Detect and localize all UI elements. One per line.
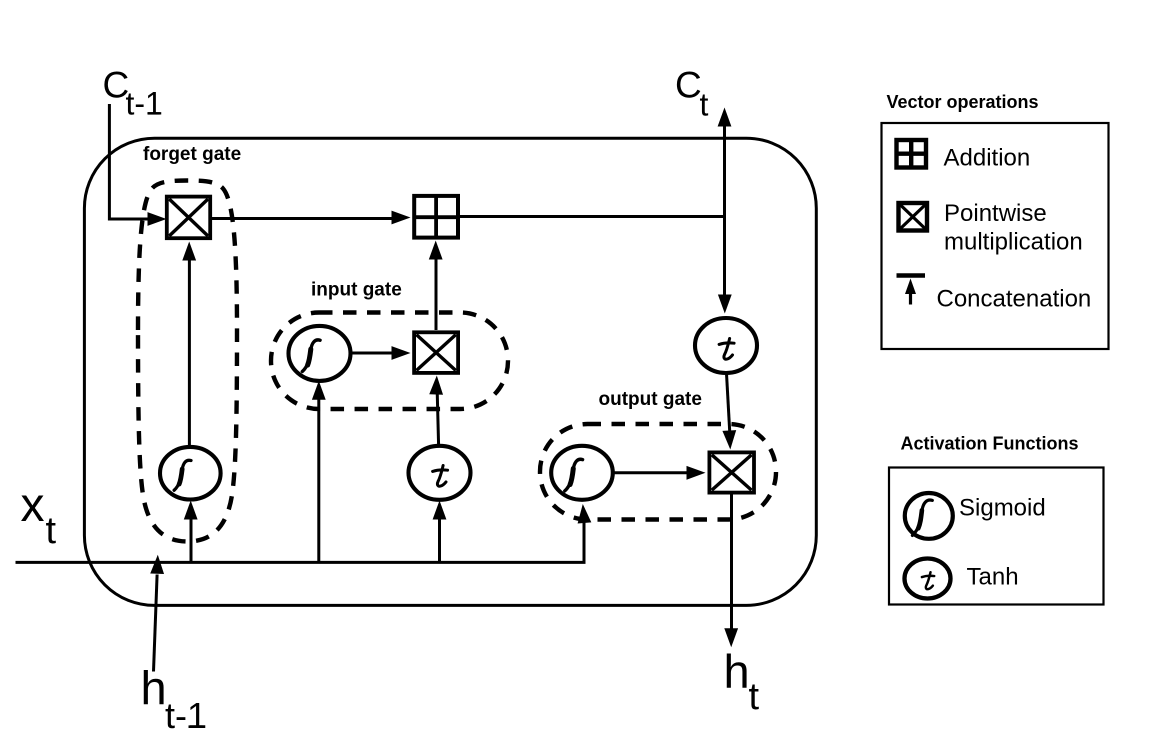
legend pointwise multiplication icon — [899, 203, 928, 231]
wire x_t line to candidate tanh — [433, 501, 447, 563]
svg-text:input gate: input gate — [311, 279, 402, 300]
node C_{t-1} label — [103, 65, 163, 122]
pointwise multiplier (input) — [414, 332, 458, 373]
wire forget multiplier to adder — [212, 211, 411, 225]
node h_t label — [724, 645, 760, 718]
pointwise multiplier (output) — [709, 452, 754, 492]
legend addition icon — [897, 140, 927, 168]
wire C_t output arrow — [718, 108, 732, 217]
wire junction down to tanh — [718, 217, 732, 314]
svg-text:C: C — [675, 65, 702, 106]
legend sigmoid icon — [905, 493, 953, 539]
legend Pointwise multiplication text — [944, 200, 1083, 256]
svg-text:h: h — [141, 662, 167, 715]
node C_t label — [675, 65, 709, 123]
svg-text:t-1: t-1 — [126, 86, 163, 122]
svg-text:x: x — [21, 479, 45, 532]
output gate dashed stadium — [540, 424, 776, 520]
node x_t label — [21, 479, 57, 552]
svg-text:t: t — [46, 510, 57, 552]
LSTM cell boundary — [84, 138, 816, 605]
pointwise multiplier (forget) — [167, 197, 210, 239]
wire C_{t-1} into forget multiplier — [109, 104, 166, 226]
wire output sigmoid to output multiplier — [613, 466, 706, 480]
wire candidate tanh to input multiplier — [429, 375, 443, 445]
wire output multiplier to h_t — [724, 494, 738, 647]
adder — [414, 196, 458, 238]
wire adder to C junction — [460, 215, 726, 218]
input gate dashed stadium — [271, 313, 508, 410]
svg-text:t: t — [749, 676, 760, 718]
svg-text:Addition: Addition — [944, 145, 1031, 172]
legend tanh icon — [905, 559, 951, 599]
svg-text:Concatenation: Concatenation — [937, 286, 1092, 313]
svg-text:h: h — [724, 645, 750, 698]
svg-text:Sigmoid: Sigmoid — [959, 495, 1046, 522]
legend: vector operations box — [882, 123, 1109, 349]
svg-text:t: t — [700, 86, 709, 122]
wire forget sigmoid to forget multiplier — [182, 242, 196, 448]
forget gate dashed ellipse — [138, 181, 237, 542]
svg-text:multiplication: multiplication — [944, 229, 1083, 256]
svg-text:forget gate: forget gate — [143, 144, 241, 165]
sigmoid (input gate) — [289, 326, 351, 381]
wire x_t line to input sigmoid — [312, 381, 326, 563]
wire input multiplier up to adder — [429, 241, 443, 331]
wire tanh to output multiplier — [722, 374, 737, 450]
svg-text:Tanh: Tanh — [967, 564, 1019, 591]
wire input sigmoid to input multiplier — [351, 346, 411, 360]
legend: activation functions box — [889, 468, 1104, 605]
tanh (candidate) — [409, 446, 471, 500]
node C junction — [723, 215, 726, 218]
wire x_t input line to output sigmoid — [16, 503, 592, 562]
svg-text:Vector operations: Vector operations — [887, 92, 1039, 112]
svg-text:Activation Functions: Activation Functions — [901, 434, 1079, 454]
sigmoid (output gate) — [551, 446, 613, 500]
svg-text:Pointwise: Pointwise — [944, 200, 1047, 227]
wire x_t line to forget sigmoid — [184, 501, 198, 563]
node h_{t-1} label — [141, 662, 208, 733]
tanh (cell output activation) — [695, 318, 757, 373]
sigmoid (forget gate) — [160, 447, 221, 500]
svg-text:output gate: output gate — [599, 389, 702, 410]
legend concatenation icon — [897, 276, 926, 305]
wire h_{t-1} input arrow — [150, 555, 164, 672]
